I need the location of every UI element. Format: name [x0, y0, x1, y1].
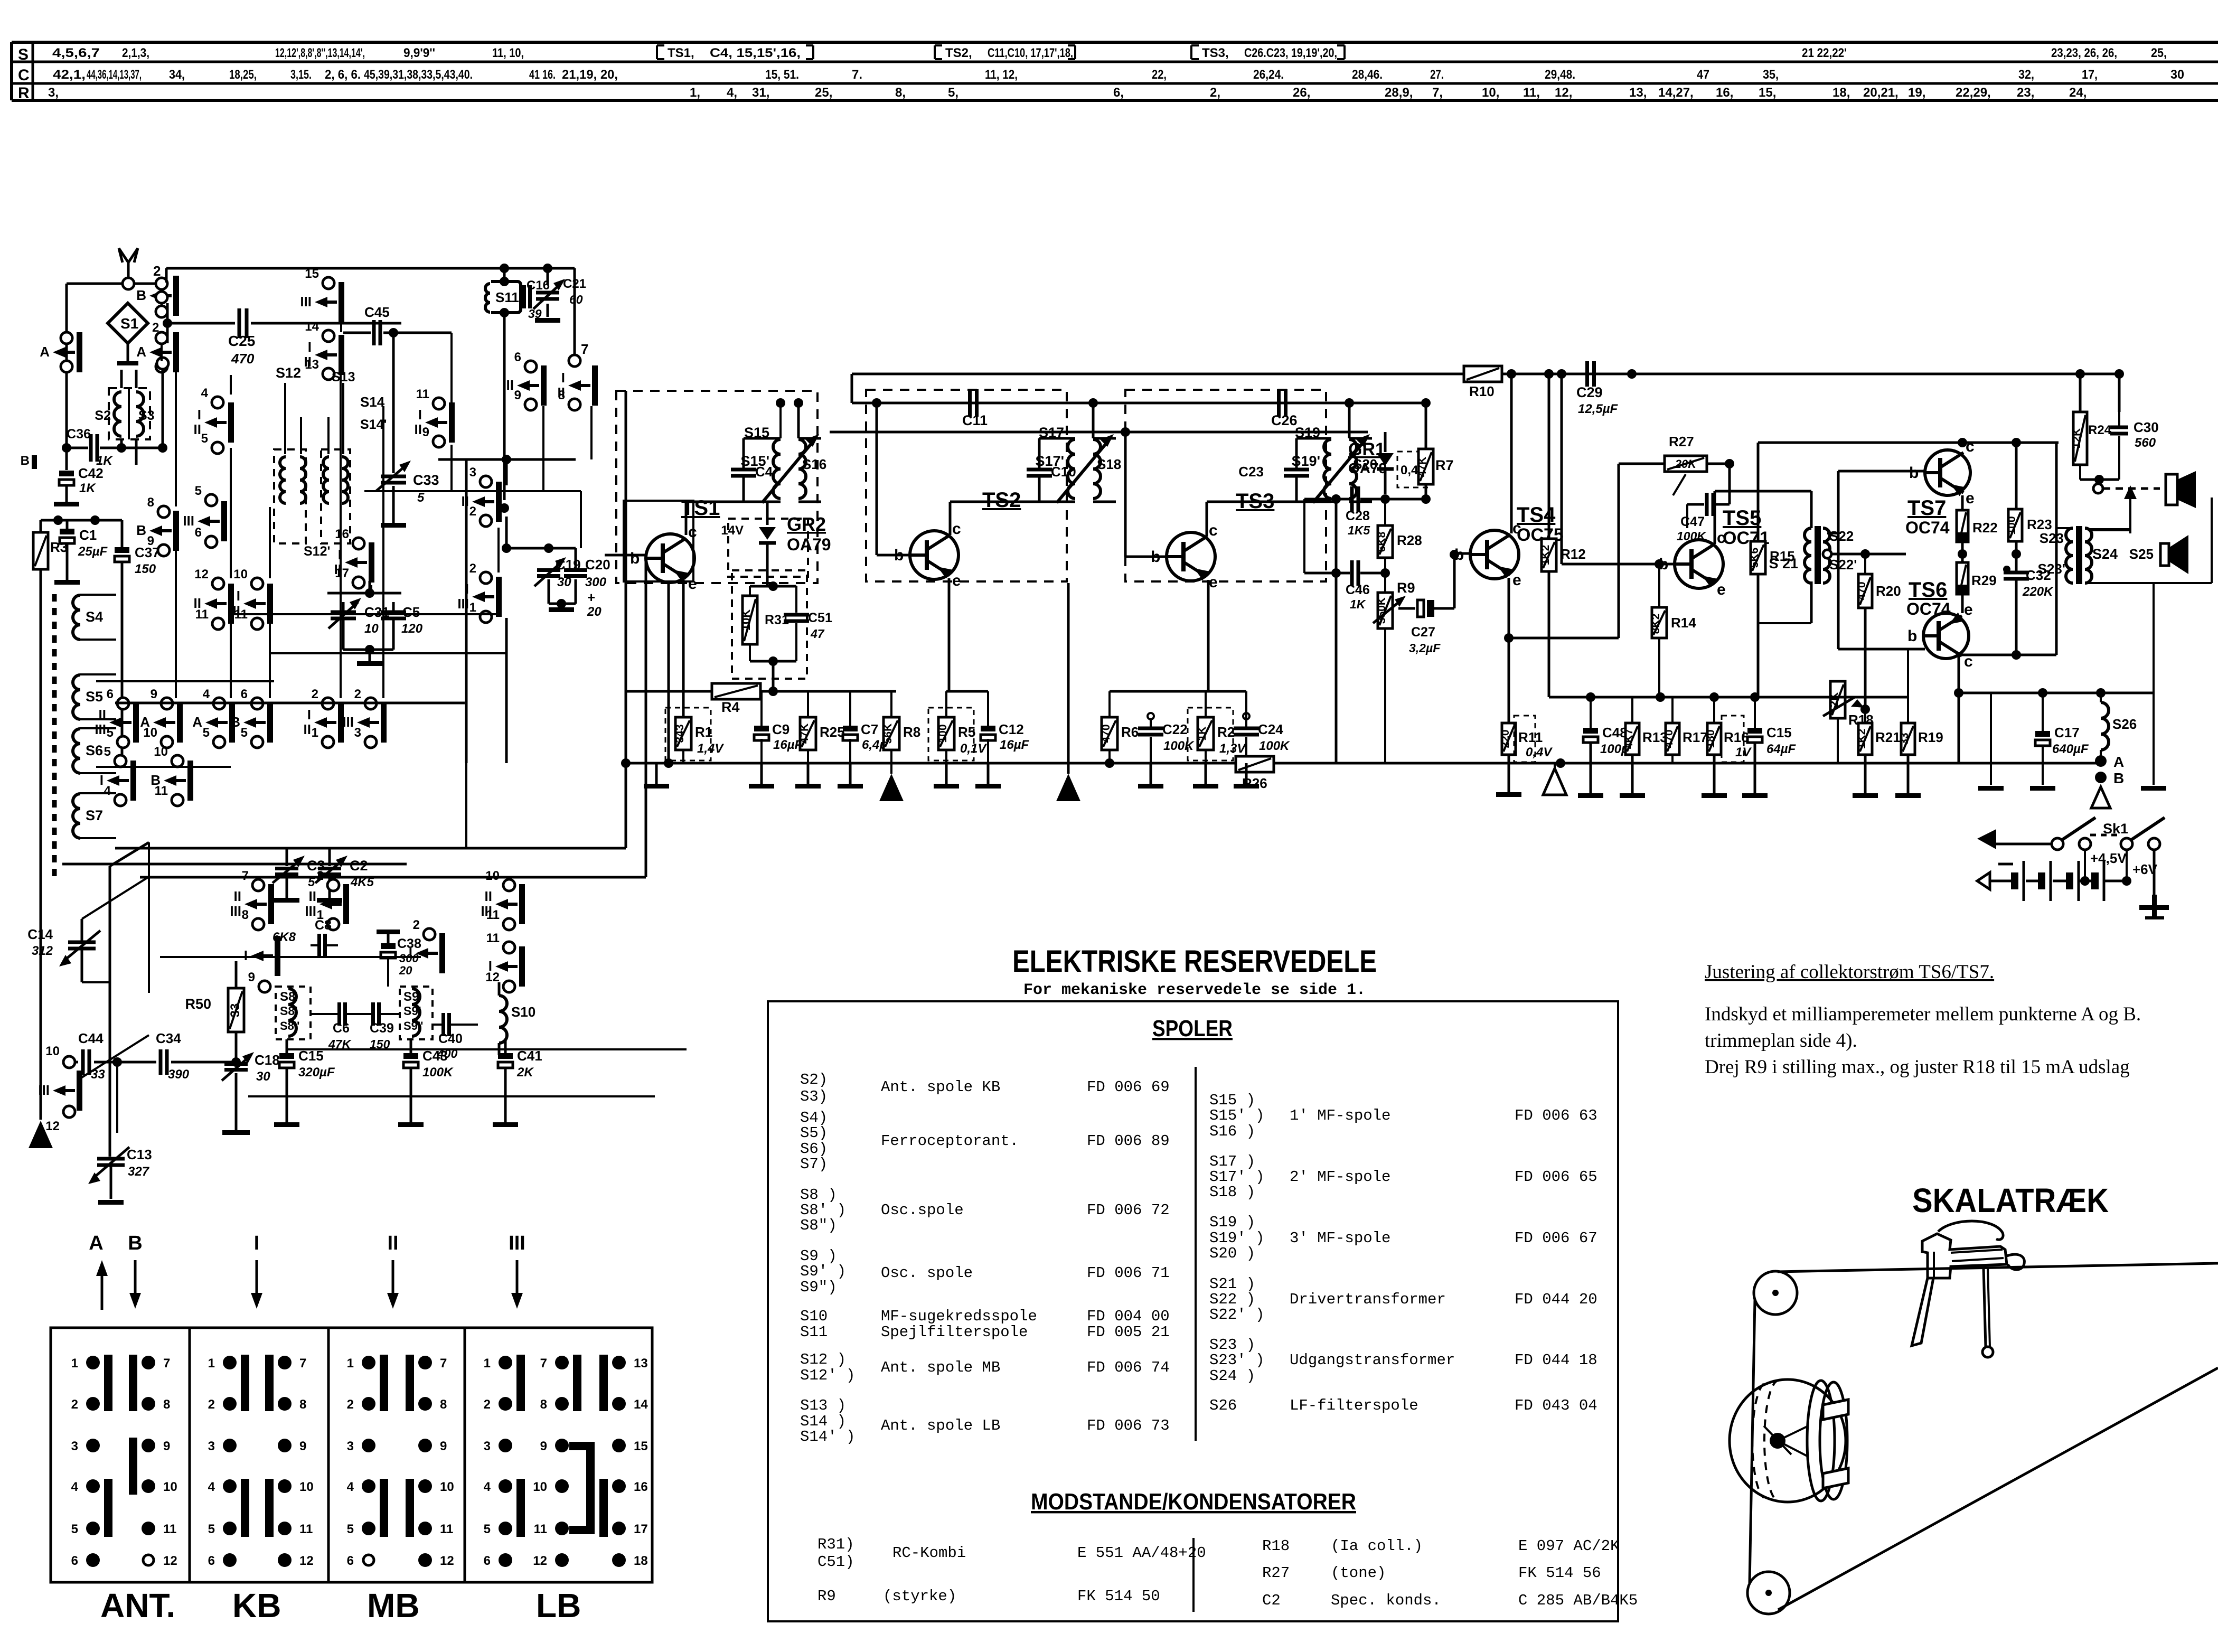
- svg-text:S14: S14: [360, 394, 385, 410]
- svg-text:R21: R21: [1875, 729, 1901, 745]
- svg-text:9: 9: [147, 534, 154, 548]
- svg-text:S1: S1: [120, 315, 138, 332]
- svg-text:C29: C29: [1576, 384, 1603, 400]
- svg-text:13,: 13,: [1629, 86, 1647, 100]
- svg-text:S15' ): S15' ): [1209, 1107, 1264, 1124]
- svg-text:2: 2: [208, 1397, 215, 1412]
- svg-text:S23' ): S23' ): [1209, 1351, 1264, 1369]
- svg-text:2: 2: [153, 263, 161, 279]
- svg-text:14,27,: 14,27,: [1658, 86, 1694, 100]
- svg-text:C23: C23: [1238, 464, 1264, 480]
- svg-text:Udgangstransformer: Udgangstransformer: [1290, 1351, 1455, 1369]
- svg-text:3,: 3,: [48, 86, 59, 100]
- svg-text:A: A: [192, 714, 202, 730]
- svg-text:C2: C2: [350, 858, 368, 874]
- svg-text:S11: S11: [495, 289, 519, 305]
- svg-text:5: 5: [104, 745, 111, 759]
- svg-text:4: 4: [484, 1480, 491, 1494]
- svg-text:3,15.: 3,15.: [290, 68, 312, 82]
- svg-text:31,: 31,: [752, 86, 769, 100]
- svg-text:8: 8: [242, 908, 249, 922]
- svg-text:S22: S22: [1829, 528, 1854, 544]
- svg-text:10: 10: [485, 869, 500, 883]
- svg-text:21,19, 20,: 21,19, 20,: [562, 68, 618, 82]
- svg-text:47K: 47K: [798, 724, 811, 744]
- svg-text:GR2: GR2: [787, 513, 826, 535]
- svg-text:I: I: [254, 1232, 260, 1254]
- svg-text:100: 100: [2006, 516, 2018, 534]
- svg-text:3: 3: [484, 1439, 491, 1453]
- svg-text:20: 20: [587, 605, 602, 619]
- svg-text:II: II: [194, 421, 201, 437]
- svg-text:6: 6: [195, 525, 202, 540]
- svg-text:Indskyd et milliamperemeter me: Indskyd et milliamperemeter mellem punkt…: [1705, 1003, 2141, 1025]
- svg-text:(Ia coll.): (Ia coll.): [1331, 1537, 1423, 1555]
- svg-text:5: 5: [107, 726, 114, 740]
- svg-text:R12: R12: [1561, 546, 1586, 562]
- svg-text:4K7: 4K7: [1623, 729, 1635, 749]
- svg-text:S25: S25: [2129, 546, 2154, 562]
- svg-text:5: 5: [71, 1522, 78, 1536]
- svg-text:7: 7: [440, 1356, 447, 1371]
- svg-text:E 097 AC/2K: E 097 AC/2K: [1518, 1537, 1620, 1555]
- svg-text:5: 5: [308, 875, 315, 889]
- svg-text:6: 6: [107, 687, 114, 701]
- svg-text:33: 33: [91, 1067, 105, 1082]
- svg-text:C36: C36: [67, 427, 91, 442]
- svg-text:III: III: [183, 513, 194, 529]
- svg-text:2: 2: [413, 918, 420, 932]
- svg-text:100K: 100K: [1163, 739, 1195, 753]
- svg-text:22,29,: 22,29,: [1956, 86, 1991, 100]
- svg-text:C25: C25: [228, 333, 255, 349]
- svg-text:7: 7: [242, 869, 249, 883]
- svg-text:FD 006 63: FD 006 63: [1515, 1107, 1597, 1124]
- svg-text:C13: C13: [127, 1147, 152, 1162]
- svg-text:C17: C17: [2054, 725, 2080, 740]
- svg-text:MB: MB: [367, 1587, 420, 1625]
- svg-text:10,: 10,: [1482, 86, 1499, 100]
- svg-text:S10: S10: [511, 1004, 535, 1020]
- svg-text:5: 5: [201, 431, 208, 446]
- svg-text:e: e: [1964, 601, 1973, 618]
- svg-text:12: 12: [485, 970, 500, 984]
- svg-text:11, 10,: 11, 10,: [492, 46, 524, 60]
- svg-text:b: b: [1907, 627, 1917, 645]
- svg-text:b: b: [630, 550, 640, 567]
- svg-text:44,36,14,13,37,: 44,36,14,13,37,: [87, 68, 142, 82]
- svg-text:SPOLER: SPOLER: [1152, 1016, 1233, 1041]
- svg-text:15, 51.: 15, 51.: [765, 68, 799, 82]
- svg-text:29,48.: 29,48.: [1545, 68, 1575, 82]
- svg-text:Ant. spole KB: Ant. spole KB: [881, 1078, 1000, 1096]
- svg-text:4: 4: [71, 1480, 79, 1494]
- svg-text:III: III: [38, 1082, 50, 1098]
- svg-text:3: 3: [469, 465, 476, 480]
- svg-text:S2: S2: [95, 408, 111, 423]
- svg-text:10: 10: [299, 1480, 314, 1494]
- svg-text:6: 6: [484, 1554, 491, 1568]
- svg-text:2, 6, 6.: 2, 6, 6.: [325, 68, 361, 82]
- svg-text:1: 1: [484, 1356, 491, 1371]
- svg-text:C51): C51): [817, 1553, 854, 1571]
- svg-text:FD 006 89: FD 006 89: [1087, 1132, 1170, 1150]
- svg-text:S13 ): S13 ): [800, 1397, 846, 1414]
- svg-text:1: 1: [347, 1356, 354, 1371]
- svg-text:R2: R2: [1217, 724, 1235, 740]
- svg-text:2,: 2,: [1210, 86, 1220, 100]
- svg-text:OA79: OA79: [1348, 460, 1387, 476]
- svg-text:S9'': S9'': [403, 1019, 423, 1032]
- svg-text:KB: KB: [232, 1587, 281, 1625]
- svg-text:Drej R9 i stilling max., og ju: Drej R9 i stilling max., og juster R18 t…: [1705, 1056, 2130, 1078]
- svg-text:C26.C23, 19,19',20,: C26.C23, 19,19',20,: [1244, 46, 1337, 60]
- svg-text:100K: 100K: [1259, 739, 1290, 753]
- svg-text:3: 3: [208, 1439, 215, 1453]
- svg-text:C27: C27: [1411, 625, 1435, 640]
- svg-text:2: 2: [469, 561, 476, 576]
- svg-text:II: II: [99, 707, 106, 722]
- svg-text:41 16.: 41 16.: [529, 68, 556, 82]
- svg-text:10: 10: [154, 745, 168, 759]
- svg-text:1K: 1K: [1350, 597, 1366, 611]
- svg-text:R8: R8: [903, 724, 920, 740]
- svg-text:C24: C24: [1258, 721, 1283, 737]
- svg-text:C34: C34: [156, 1030, 181, 1046]
- svg-text:III: III: [300, 294, 312, 309]
- svg-text:R9: R9: [1397, 580, 1415, 596]
- svg-text:R29: R29: [1971, 572, 1997, 588]
- svg-text:7: 7: [581, 341, 588, 357]
- svg-text:33: 33: [1899, 733, 1911, 745]
- svg-text:S12' ): S12' ): [800, 1367, 855, 1384]
- svg-text:42,1,: 42,1,: [53, 68, 86, 82]
- svg-text:R11: R11: [1518, 729, 1543, 745]
- svg-text:C40: C40: [438, 1031, 463, 1046]
- svg-text:10K: 10K: [739, 609, 753, 631]
- svg-text:15: 15: [634, 1439, 648, 1453]
- svg-text:FK 514 50: FK 514 50: [1077, 1588, 1160, 1605]
- svg-text:560: 560: [2135, 436, 2156, 450]
- svg-text:II: II: [234, 888, 241, 904]
- svg-text:60: 60: [569, 293, 583, 306]
- svg-text:c: c: [1966, 438, 1975, 455]
- svg-text:ANT.: ANT.: [100, 1587, 175, 1625]
- svg-text:S11: S11: [800, 1324, 828, 1341]
- svg-text:I: I: [418, 407, 422, 423]
- svg-text:TS2,: TS2,: [945, 46, 972, 60]
- svg-text:FD 044 18: FD 044 18: [1515, 1351, 1597, 1369]
- svg-text:FD 004 00: FD 004 00: [1087, 1308, 1170, 1325]
- svg-text:e: e: [1512, 571, 1521, 589]
- svg-text:C5: C5: [402, 604, 420, 620]
- svg-text:64µF: 64µF: [1766, 742, 1797, 756]
- svg-text:Ferroceptorant.: Ferroceptorant.: [881, 1132, 1019, 1150]
- svg-text:C44: C44: [78, 1030, 104, 1046]
- svg-text:I: I: [561, 370, 565, 386]
- svg-text:C4: C4: [755, 464, 773, 480]
- svg-text:47K: 47K: [1416, 457, 1428, 477]
- svg-text:S12: S12: [276, 365, 301, 381]
- svg-text:FD 043 04: FD 043 04: [1515, 1397, 1597, 1414]
- svg-text:C22: C22: [1162, 721, 1188, 737]
- svg-text:C4, 15,15',16,: C4, 15,15',16,: [710, 46, 801, 60]
- svg-text:6: 6: [514, 350, 521, 364]
- svg-text:13: 13: [305, 358, 319, 372]
- svg-text:S9' ): S9' ): [800, 1263, 846, 1280]
- svg-text:C51: C51: [808, 611, 832, 625]
- svg-text:GR1: GR1: [1348, 439, 1385, 459]
- svg-text:II: II: [485, 888, 492, 904]
- svg-text:11: 11: [155, 784, 168, 798]
- svg-text:R25: R25: [820, 724, 845, 740]
- svg-text:R28: R28: [1397, 532, 1422, 548]
- svg-text:9: 9: [248, 970, 255, 984]
- svg-text:Justering af collektorstrøm TS: Justering af collektorstrøm TS6/TS7.: [1705, 961, 1994, 983]
- svg-text:327: 327: [128, 1165, 150, 1179]
- svg-text:30: 30: [256, 1069, 270, 1084]
- svg-text:2: 2: [347, 1397, 354, 1412]
- svg-text:LF-filterspole: LF-filterspole: [1290, 1397, 1418, 1414]
- svg-text:I: I: [308, 339, 312, 355]
- svg-text:R4: R4: [721, 699, 740, 715]
- svg-text:S14' ): S14' ): [800, 1428, 855, 1445]
- svg-text:b: b: [1909, 464, 1919, 482]
- svg-text:6: 6: [347, 1554, 354, 1568]
- svg-text:11: 11: [416, 387, 429, 401]
- svg-text:19,: 19,: [1908, 86, 1925, 100]
- svg-text:III: III: [95, 721, 106, 737]
- svg-text:S9: S9: [403, 990, 419, 1004]
- svg-text:11: 11: [534, 1522, 547, 1536]
- svg-text:1: 1: [469, 600, 476, 615]
- svg-text:6: 6: [241, 687, 248, 701]
- svg-text:470: 470: [1663, 729, 1675, 748]
- svg-text:9,9'9'': 9,9'9'': [403, 46, 435, 60]
- svg-text:C42: C42: [78, 465, 104, 481]
- svg-text:7: 7: [299, 1356, 306, 1371]
- svg-text:470: 470: [231, 351, 255, 367]
- svg-text:56K: 56K: [882, 724, 894, 744]
- svg-text:20: 20: [399, 964, 412, 977]
- svg-text:6: 6: [208, 1554, 215, 1568]
- svg-text:16µF: 16µF: [1000, 738, 1030, 752]
- svg-text:I: I: [307, 707, 311, 722]
- svg-text:10: 10: [143, 726, 157, 740]
- svg-text:470: 470: [1100, 724, 1112, 743]
- svg-text:8: 8: [299, 1397, 306, 1412]
- svg-text:2: 2: [484, 1397, 491, 1412]
- svg-text:II: II: [304, 721, 311, 737]
- svg-text:TS6: TS6: [1909, 578, 1947, 602]
- svg-text:C8: C8: [315, 918, 332, 933]
- svg-text:I: I: [100, 772, 104, 788]
- svg-text:20,21,: 20,21,: [1863, 86, 1899, 100]
- svg-text:9: 9: [163, 1439, 170, 1453]
- svg-text:C11: C11: [962, 412, 988, 428]
- svg-text:2,1,3,: 2,1,3,: [122, 46, 149, 60]
- svg-text:e: e: [952, 572, 961, 589]
- svg-text:(styrke): (styrke): [883, 1588, 956, 1605]
- svg-text:1: 1: [71, 1356, 78, 1371]
- svg-text:FD 006 65: FD 006 65: [1515, 1168, 1597, 1186]
- svg-text:35,: 35,: [1763, 68, 1779, 82]
- svg-text:B: B: [136, 287, 146, 303]
- svg-text:47: 47: [810, 627, 825, 641]
- svg-text:Spejlfilterspole: Spejlfilterspole: [881, 1324, 1028, 1341]
- svg-text:B: B: [230, 714, 240, 730]
- svg-text:S12 ): S12 ): [800, 1351, 846, 1368]
- svg-text:For mekaniske reservedele se s: For mekaniske reservedele se side 1.: [1023, 981, 1366, 999]
- svg-text:6K8: 6K8: [272, 930, 296, 944]
- svg-text:8: 8: [147, 495, 154, 510]
- svg-text:S10: S10: [800, 1308, 828, 1325]
- svg-text:III: III: [305, 903, 316, 919]
- svg-text:9: 9: [151, 687, 157, 701]
- svg-text:e: e: [1209, 574, 1218, 591]
- svg-text:S9"): S9"): [800, 1279, 837, 1296]
- svg-text:17: 17: [634, 1522, 648, 1536]
- svg-text:A: A: [89, 1232, 103, 1254]
- svg-text:S26: S26: [2112, 716, 2137, 732]
- svg-text:7,: 7,: [1432, 86, 1443, 100]
- svg-text:S19 ): S19 ): [1209, 1214, 1255, 1231]
- svg-text:6: 6: [71, 1554, 78, 1568]
- svg-text:Spec. konds.: Spec. konds.: [1331, 1592, 1441, 1609]
- svg-text:150: 150: [135, 562, 156, 576]
- svg-text:II: II: [387, 1232, 398, 1254]
- svg-text:C18: C18: [255, 1052, 280, 1068]
- svg-text:18,25,: 18,25,: [229, 68, 257, 82]
- svg-text:3' MF-spole: 3' MF-spole: [1290, 1229, 1390, 1247]
- svg-text:C11,C10, 17,17',18,: C11,C10, 17,17',18,: [988, 46, 1073, 60]
- svg-text:16: 16: [634, 1480, 648, 1494]
- svg-text:180: 180: [1705, 729, 1717, 748]
- svg-text:A: A: [136, 344, 146, 360]
- svg-text:C 285 AB/B4K5: C 285 AB/B4K5: [1518, 1592, 1638, 1609]
- svg-text:R27: R27: [1669, 434, 1694, 449]
- svg-text:4: 4: [104, 784, 111, 798]
- svg-text:S18 ): S18 ): [1209, 1184, 1255, 1201]
- svg-text:1' MF-spole: 1' MF-spole: [1290, 1107, 1390, 1124]
- svg-text:B: B: [136, 522, 146, 538]
- svg-text:4: 4: [201, 386, 209, 400]
- svg-text:220K: 220K: [2022, 585, 2054, 599]
- svg-text:FD 006 67: FD 006 67: [1515, 1229, 1597, 1247]
- svg-text:c: c: [952, 520, 961, 538]
- svg-text:9: 9: [514, 388, 521, 402]
- svg-text:+4,5V: +4,5V: [2090, 850, 2127, 866]
- svg-text:0,4V: 0,4V: [1526, 745, 1553, 759]
- svg-text:R20: R20: [1876, 583, 1901, 599]
- svg-text:2: 2: [312, 687, 318, 701]
- svg-text:I: I: [244, 947, 248, 963]
- svg-text:R19: R19: [1918, 729, 1943, 745]
- svg-text:S23: S23: [2040, 530, 2064, 546]
- svg-text:Osc.spole: Osc.spole: [881, 1202, 964, 1219]
- svg-text:OA79: OA79: [787, 535, 831, 554]
- svg-text:7.: 7.: [852, 68, 862, 82]
- svg-text:16: 16: [335, 527, 349, 541]
- svg-text:I: I: [237, 588, 240, 604]
- svg-text:13: 13: [634, 1356, 648, 1371]
- svg-text:5: 5: [203, 726, 210, 740]
- svg-text:MODSTANDE/KONDENSATORER: MODSTANDE/KONDENSATORER: [1031, 1489, 1356, 1515]
- svg-text:OC74: OC74: [1906, 599, 1951, 618]
- svg-text:4K5: 4K5: [350, 875, 374, 889]
- svg-text:1K: 1K: [79, 481, 96, 495]
- svg-text:25,: 25,: [815, 86, 832, 100]
- svg-text:4: 4: [208, 1480, 215, 1494]
- svg-text:C33: C33: [413, 472, 439, 488]
- svg-text:S22' ): S22' ): [1209, 1306, 1264, 1324]
- svg-text:C: C: [18, 67, 30, 84]
- svg-text:R7: R7: [1435, 457, 1454, 473]
- svg-text:S12': S12': [304, 544, 330, 559]
- svg-text:Ant. spole LB: Ant. spole LB: [881, 1417, 1000, 1434]
- svg-text:2K: 2K: [516, 1065, 534, 1080]
- svg-text:2: 2: [469, 504, 476, 519]
- svg-text:25,: 25,: [2151, 46, 2167, 60]
- svg-text:390: 390: [168, 1067, 190, 1082]
- svg-text:1K2: 1K2: [1539, 545, 1552, 566]
- svg-text:2: 2: [152, 321, 159, 335]
- svg-text:S5: S5: [86, 689, 103, 705]
- svg-text:33: 33: [228, 1003, 242, 1018]
- svg-text:34,: 34,: [169, 68, 185, 82]
- svg-text:5: 5: [241, 726, 248, 740]
- svg-text:320µF: 320µF: [298, 1065, 335, 1080]
- svg-text:E 551 AA/48+20: E 551 AA/48+20: [1077, 1544, 1206, 1562]
- svg-text:LB: LB: [536, 1587, 581, 1625]
- svg-text:2: 2: [354, 687, 361, 701]
- svg-text:e: e: [1966, 490, 1975, 507]
- svg-text:C12: C12: [999, 721, 1024, 737]
- svg-text:TS7: TS7: [1907, 496, 1946, 520]
- svg-text:8: 8: [540, 1397, 547, 1412]
- svg-text:12,12',8,8',8'',13,14,14',: 12,12',8,8',8'',13,14,14',: [275, 46, 365, 60]
- svg-text:28,9,: 28,9,: [1385, 86, 1413, 100]
- svg-text:C45: C45: [364, 304, 390, 320]
- svg-text:FD 006 71: FD 006 71: [1087, 1264, 1170, 1282]
- svg-text:12: 12: [533, 1554, 547, 1568]
- svg-text:OC74: OC74: [1905, 518, 1950, 537]
- svg-text:FD 006 74: FD 006 74: [1087, 1359, 1170, 1376]
- svg-text:100: 100: [937, 724, 949, 743]
- svg-text:C6: C6: [333, 1021, 350, 1036]
- svg-text:23,: 23,: [2017, 86, 2034, 100]
- svg-text:C38: C38: [397, 936, 421, 951]
- svg-text:(tone): (tone): [1331, 1564, 1386, 1582]
- svg-text:1K5: 1K5: [1348, 523, 1370, 537]
- svg-text:343: 343: [674, 724, 686, 743]
- svg-text:12: 12: [45, 1119, 60, 1133]
- svg-text:1V: 1V: [1735, 745, 1752, 759]
- svg-text:S7: S7: [86, 808, 103, 823]
- svg-text:45,39,31,38,33,5,43,40.: 45,39,31,38,33,5,43,40.: [364, 68, 473, 82]
- svg-text:1,: 1,: [690, 86, 700, 100]
- svg-text:trimmeplan side 4).: trimmeplan side 4).: [1705, 1030, 1857, 1052]
- svg-text:4,5,6,7: 4,5,6,7: [52, 46, 100, 60]
- svg-text:Osc. spole: Osc. spole: [881, 1264, 973, 1282]
- svg-text:B: B: [128, 1232, 142, 1254]
- svg-text:S16 ): S16 ): [1209, 1123, 1255, 1140]
- svg-text:S18: S18: [1097, 456, 1121, 472]
- svg-text:3,2µF: 3,2µF: [1409, 641, 1441, 655]
- svg-text:32,: 32,: [2018, 68, 2034, 82]
- svg-text:12: 12: [163, 1554, 177, 1568]
- svg-text:S14': S14': [360, 417, 387, 432]
